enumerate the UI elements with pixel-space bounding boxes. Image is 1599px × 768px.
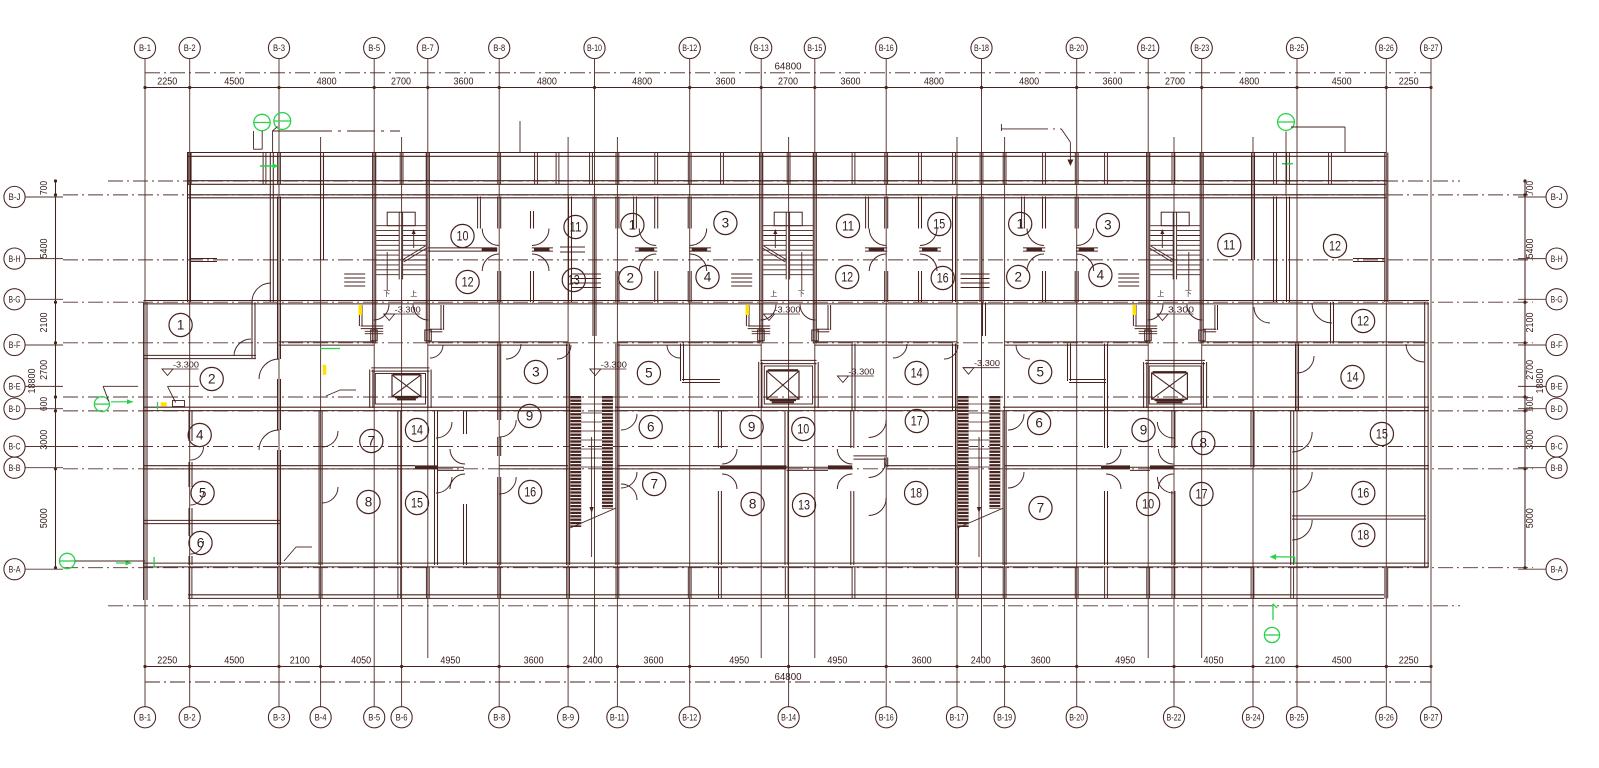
yellow markers <box>161 305 1136 406</box>
horizontal grid row lines <box>63 181 1533 606</box>
svg-text:2700: 2700 <box>778 76 798 87</box>
svg-text:8: 8 <box>1200 436 1208 451</box>
room number circles <box>169 211 1394 554</box>
svg-text:64800: 64800 <box>775 672 802 683</box>
svg-text:3: 3 <box>532 365 540 380</box>
svg-text:B-13: B-13 <box>754 43 769 53</box>
top dimension chain <box>143 62 1432 90</box>
svg-text:-3.300: -3.300 <box>848 367 874 377</box>
leader lines <box>75 121 1345 561</box>
svg-text:2250: 2250 <box>1399 655 1419 666</box>
svg-text:4800: 4800 <box>537 76 557 87</box>
left unit room divider wall <box>144 519 281 521</box>
svg-text:B-A: B-A <box>9 564 21 574</box>
svg-text:3.300: 3.300 <box>1168 305 1194 315</box>
svg-text:3600: 3600 <box>644 655 664 666</box>
svg-text:11: 11 <box>842 219 854 234</box>
svg-text:B-8: B-8 <box>493 713 505 723</box>
svg-text:2: 2 <box>208 372 216 387</box>
svg-text:B-C: B-C <box>9 442 21 452</box>
svg-text:700: 700 <box>1525 181 1536 195</box>
row G wall <box>144 300 1430 302</box>
svg-text:13: 13 <box>568 273 580 288</box>
svg-text:5: 5 <box>645 366 653 381</box>
svg-text:B-H: B-H <box>9 254 21 264</box>
svg-text:B-7: B-7 <box>422 43 434 53</box>
svg-text:3600: 3600 <box>912 655 932 666</box>
svg-text:18800: 18800 <box>27 368 38 393</box>
svg-text:9: 9 <box>748 420 756 435</box>
svg-text:12: 12 <box>841 270 853 285</box>
row J wall <box>187 194 1386 196</box>
svg-text:5: 5 <box>1036 365 1044 380</box>
svg-text:2100: 2100 <box>39 312 50 332</box>
svg-text:B-27: B-27 <box>1424 713 1439 723</box>
green axis markers <box>59 113 1294 643</box>
lower stair 2 <box>958 396 1004 557</box>
outer end walls <box>144 153 1429 601</box>
svg-text:11: 11 <box>1223 238 1235 253</box>
svg-text:B-2: B-2 <box>184 713 196 723</box>
svg-text:4050: 4050 <box>351 655 371 666</box>
svg-text:12: 12 <box>1357 314 1369 329</box>
svg-text:9: 9 <box>1140 423 1148 438</box>
svg-text:2: 2 <box>1014 270 1022 285</box>
svg-text:B-14: B-14 <box>781 713 796 723</box>
svg-text:B-F: B-F <box>1551 340 1563 350</box>
svg-text:16: 16 <box>937 271 949 286</box>
svg-text:17: 17 <box>1196 487 1208 502</box>
svg-text:6: 6 <box>1035 416 1043 431</box>
svg-text:7: 7 <box>1037 501 1045 516</box>
svg-text:B-G: B-G <box>9 295 21 305</box>
svg-text:B-G: B-G <box>1551 295 1563 305</box>
svg-text:3600: 3600 <box>1103 76 1123 87</box>
lower stair 1 <box>570 396 616 557</box>
svg-text:B-5: B-5 <box>368 43 380 53</box>
svg-text:下: 下 <box>798 290 805 298</box>
svg-text:14: 14 <box>911 366 923 381</box>
svg-text:4800: 4800 <box>924 76 944 87</box>
svg-text:8: 8 <box>365 495 373 510</box>
svg-text:B-3: B-3 <box>273 713 285 723</box>
svg-text:下: 下 <box>383 290 390 298</box>
svg-text:B-17: B-17 <box>950 713 965 723</box>
svg-text:2: 2 <box>627 271 635 286</box>
svg-text:2700: 2700 <box>39 360 50 380</box>
svg-text:B-J: B-J <box>9 192 21 202</box>
svg-text:B-6: B-6 <box>396 713 408 723</box>
svg-text:2400: 2400 <box>971 655 991 666</box>
svg-text:B-E: B-E <box>1551 382 1563 392</box>
green arrows and ticks <box>111 163 1295 620</box>
svg-text:700: 700 <box>39 181 50 195</box>
svg-text:2250: 2250 <box>157 76 177 87</box>
svg-text:4800: 4800 <box>632 76 652 87</box>
svg-text:4950: 4950 <box>440 655 460 666</box>
svg-text:6: 6 <box>197 536 205 551</box>
svg-text:B-E: B-E <box>9 382 21 392</box>
svg-text:B-21: B-21 <box>1141 43 1156 53</box>
stair core 2 <box>762 212 813 298</box>
svg-text:2100: 2100 <box>1265 655 1285 666</box>
svg-text:4950: 4950 <box>729 655 749 666</box>
svg-text:B-25: B-25 <box>1290 43 1305 53</box>
svg-text:3600: 3600 <box>524 655 544 666</box>
svg-text:4800: 4800 <box>1239 76 1259 87</box>
row D wall <box>144 407 1430 410</box>
svg-text:上: 上 <box>1157 289 1164 298</box>
top balcony strip <box>187 153 1386 185</box>
svg-text:3600: 3600 <box>1031 655 1051 666</box>
svg-text:-3.300: -3.300 <box>395 305 421 315</box>
svg-text:14: 14 <box>411 423 423 438</box>
svg-text:B-25: B-25 <box>1290 713 1305 723</box>
svg-text:-3.300: -3.300 <box>173 360 199 370</box>
svg-text:B-20: B-20 <box>1069 43 1084 53</box>
svg-text:B-C: B-C <box>1551 442 1563 452</box>
svg-text:B-4: B-4 <box>315 713 327 723</box>
svg-text:7: 7 <box>368 434 376 449</box>
right row bubbles <box>1518 186 1567 579</box>
svg-text:3600: 3600 <box>841 76 861 87</box>
svg-text:4500: 4500 <box>224 76 244 87</box>
interior vertical walls <box>189 153 1334 566</box>
svg-text:B-1: B-1 <box>139 43 151 53</box>
row B double doors <box>450 449 1173 489</box>
svg-text:2100: 2100 <box>290 655 310 666</box>
svg-text:1: 1 <box>177 318 185 333</box>
stair core 1 <box>376 212 427 298</box>
svg-text:15: 15 <box>411 496 423 511</box>
svg-text:B-18: B-18 <box>974 43 989 53</box>
bottom axis bubbles <box>134 707 1441 728</box>
elevator shaft 2 <box>759 360 819 408</box>
svg-text:10: 10 <box>457 229 469 244</box>
elevator shaft 1 <box>370 368 431 408</box>
row B wall <box>144 456 1430 471</box>
svg-text:B-F: B-F <box>9 340 21 350</box>
svg-text:B-J: B-J <box>1551 192 1563 202</box>
svg-text:3600: 3600 <box>454 76 474 87</box>
svg-text:15: 15 <box>1376 427 1388 442</box>
svg-text:4500: 4500 <box>1332 76 1352 87</box>
svg-text:5: 5 <box>199 486 207 501</box>
svg-text:4800: 4800 <box>317 76 337 87</box>
svg-text:B-3: B-3 <box>273 43 285 53</box>
svg-text:2250: 2250 <box>1399 76 1419 87</box>
stair vestibule 1 <box>359 305 443 341</box>
door swing arcs <box>191 283 1425 554</box>
svg-text:9: 9 <box>526 409 534 424</box>
svg-text:B-16: B-16 <box>879 713 894 723</box>
stair vestibule 3 <box>1133 305 1217 341</box>
svg-text:B-9: B-9 <box>562 713 574 723</box>
svg-text:16: 16 <box>1357 486 1369 501</box>
top band room divider stubs <box>191 197 1385 383</box>
svg-text:-3.300: -3.300 <box>974 358 1000 368</box>
svg-text:-3.300: -3.300 <box>775 305 801 315</box>
svg-text:B-B: B-B <box>1551 463 1563 473</box>
svg-text:2100: 2100 <box>1525 312 1536 332</box>
svg-text:5000: 5000 <box>1525 508 1536 528</box>
svg-text:1: 1 <box>629 218 637 233</box>
svg-text:15: 15 <box>933 217 945 232</box>
svg-text:B-22: B-22 <box>1167 713 1182 723</box>
svg-text:4800: 4800 <box>1019 76 1039 87</box>
left row bubbles <box>4 186 63 579</box>
svg-text:B-15: B-15 <box>807 43 822 53</box>
svg-text:4: 4 <box>1097 268 1105 283</box>
svg-text:上: 上 <box>770 289 777 298</box>
svg-text:B-20: B-20 <box>1069 713 1084 723</box>
svg-text:10: 10 <box>1142 497 1154 512</box>
svg-text:3: 3 <box>722 216 730 231</box>
svg-text:64800: 64800 <box>775 62 802 73</box>
svg-text:B-19: B-19 <box>997 713 1012 723</box>
svg-text:B-10: B-10 <box>587 43 602 53</box>
svg-text:11: 11 <box>570 220 582 235</box>
stair vestibule 2 <box>746 305 830 341</box>
svg-text:B-16: B-16 <box>879 43 894 53</box>
svg-text:5400: 5400 <box>1525 238 1536 258</box>
svg-text:4050: 4050 <box>1204 655 1224 666</box>
vertical grid axis lines <box>145 59 1431 707</box>
svg-text:3600: 3600 <box>716 76 736 87</box>
svg-text:18: 18 <box>1357 528 1369 543</box>
svg-text:B-27: B-27 <box>1424 43 1439 53</box>
svg-text:B-D: B-D <box>1551 404 1563 414</box>
svg-text:B-26: B-26 <box>1379 713 1394 723</box>
svg-text:18: 18 <box>910 486 922 501</box>
svg-text:B-24: B-24 <box>1246 713 1261 723</box>
svg-text:2700: 2700 <box>391 76 411 87</box>
svg-text:上: 上 <box>410 289 417 298</box>
bottom balcony strip <box>144 563 1430 598</box>
svg-text:B-D: B-D <box>9 404 21 414</box>
svg-text:B-H: B-H <box>1551 254 1563 264</box>
svg-text:B-A: B-A <box>1551 564 1563 574</box>
svg-text:18800: 18800 <box>1535 368 1546 393</box>
svg-text:B-8: B-8 <box>493 43 505 53</box>
svg-text:B-12: B-12 <box>682 43 697 53</box>
stair core 3 <box>1149 212 1200 298</box>
svg-text:6: 6 <box>647 420 655 435</box>
svg-text:B-26: B-26 <box>1379 43 1394 53</box>
svg-text:7: 7 <box>650 477 658 492</box>
svg-text:B-11: B-11 <box>610 713 625 723</box>
right dimension chain <box>1523 179 1546 569</box>
svg-text:1: 1 <box>1016 217 1024 232</box>
svg-text:12: 12 <box>1329 239 1341 254</box>
svg-text:12: 12 <box>462 275 474 290</box>
row F walls <box>144 342 1426 359</box>
svg-text:4: 4 <box>196 428 204 443</box>
svg-text:B-1: B-1 <box>139 713 151 723</box>
svg-text:4: 4 <box>704 270 712 285</box>
svg-text:8: 8 <box>749 497 757 512</box>
svg-text:2400: 2400 <box>583 655 603 666</box>
bottom dimension chain <box>143 655 1432 683</box>
svg-text:2700: 2700 <box>1165 76 1185 87</box>
svg-text:16: 16 <box>524 485 536 500</box>
svg-text:14: 14 <box>1347 370 1359 385</box>
svg-text:4950: 4950 <box>1115 655 1135 666</box>
top band door arcs <box>482 229 1093 272</box>
svg-text:B-23: B-23 <box>1194 43 1209 53</box>
svg-text:B-2: B-2 <box>184 43 196 53</box>
svg-text:B-5: B-5 <box>368 713 380 723</box>
floor level labels <box>162 305 1194 383</box>
svg-text:-3.300: -3.300 <box>601 360 627 370</box>
left dimension chain <box>27 179 57 569</box>
svg-text:4500: 4500 <box>224 655 244 666</box>
entry steps <box>344 274 1139 288</box>
svg-text:B-12: B-12 <box>682 713 697 723</box>
svg-text:13: 13 <box>798 498 810 513</box>
svg-text:17: 17 <box>911 414 923 429</box>
svg-text:4950: 4950 <box>827 655 847 666</box>
svg-text:B-B: B-B <box>9 463 21 473</box>
top axis bubbles <box>134 37 1441 58</box>
svg-text:4500: 4500 <box>1332 655 1352 666</box>
svg-text:下: 下 <box>1185 290 1192 298</box>
right unit room divider wall <box>1292 515 1426 517</box>
elevator shaft 3 <box>1144 360 1207 408</box>
svg-text:5000: 5000 <box>39 508 50 528</box>
svg-text:3: 3 <box>1104 218 1112 233</box>
svg-text:5400: 5400 <box>39 238 50 258</box>
svg-text:10: 10 <box>797 422 809 437</box>
svg-text:2250: 2250 <box>157 655 177 666</box>
